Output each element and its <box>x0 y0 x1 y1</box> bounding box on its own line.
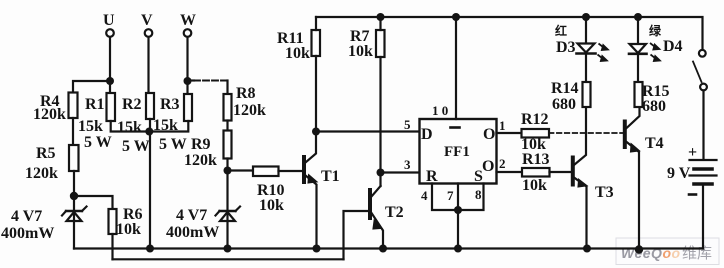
svg-text:10k: 10k <box>259 197 284 214</box>
svg-text:400mW: 400mW <box>166 224 219 241</box>
svg-text:5: 5 <box>404 117 411 132</box>
svg-text:120k: 120k <box>184 152 217 169</box>
svg-text:R3: R3 <box>160 96 180 113</box>
svg-text:3: 3 <box>404 157 411 172</box>
svg-text:R9: R9 <box>191 136 211 153</box>
svg-text:680: 680 <box>552 96 576 113</box>
svg-text:V: V <box>141 12 153 29</box>
svg-text:2: 2 <box>499 156 506 171</box>
svg-text:8: 8 <box>475 187 482 202</box>
svg-text:红: 红 <box>555 23 567 38</box>
svg-text:9 V: 9 V <box>667 165 691 182</box>
svg-text:15k: 15k <box>153 117 178 134</box>
svg-text:R1: R1 <box>85 96 105 113</box>
svg-text:T4: T4 <box>645 135 664 152</box>
svg-text:10k: 10k <box>116 221 141 238</box>
svg-text:U: U <box>103 12 115 29</box>
svg-text:T2: T2 <box>385 204 404 221</box>
svg-text:R13: R13 <box>522 151 550 168</box>
svg-text:FF1: FF1 <box>444 144 470 160</box>
svg-text:绿: 绿 <box>649 23 662 38</box>
svg-text:4 V7: 4 V7 <box>176 207 207 224</box>
svg-text:120k: 120k <box>33 106 66 123</box>
svg-text:7: 7 <box>447 188 454 203</box>
svg-text:T1: T1 <box>321 168 340 185</box>
svg-text:R: R <box>426 168 438 185</box>
svg-text:+: + <box>688 144 697 161</box>
svg-text:D4: D4 <box>663 38 683 55</box>
svg-text:4 V7: 4 V7 <box>11 208 42 225</box>
svg-text:15k: 15k <box>78 118 103 135</box>
svg-text:5 W: 5 W <box>84 134 112 151</box>
svg-text:R12: R12 <box>521 111 549 128</box>
svg-text:T3: T3 <box>595 184 614 201</box>
svg-text:4: 4 <box>421 188 428 203</box>
svg-text:O: O <box>483 126 495 143</box>
svg-text:5 W: 5 W <box>122 138 150 155</box>
svg-text:10k: 10k <box>348 43 373 60</box>
svg-text:5 W: 5 W <box>159 136 187 153</box>
svg-text:120k: 120k <box>25 165 58 182</box>
svg-text:D: D <box>421 126 433 143</box>
svg-text:R14: R14 <box>551 80 579 97</box>
svg-text:R8: R8 <box>236 85 256 102</box>
svg-text:400mW: 400mW <box>1 225 54 242</box>
svg-text:W: W <box>180 12 196 29</box>
svg-text:1: 1 <box>499 118 506 133</box>
svg-text:O: O <box>482 158 494 175</box>
svg-text:10k: 10k <box>522 177 547 194</box>
svg-text:120k: 120k <box>233 102 266 119</box>
svg-text:10k: 10k <box>285 45 310 62</box>
svg-text:15k: 15k <box>117 119 142 136</box>
svg-text:D3: D3 <box>556 39 576 56</box>
svg-text:R2: R2 <box>122 96 142 113</box>
svg-text:680: 680 <box>642 98 666 115</box>
svg-text:1 0: 1 0 <box>432 103 448 118</box>
svg-text:R5: R5 <box>36 145 56 162</box>
